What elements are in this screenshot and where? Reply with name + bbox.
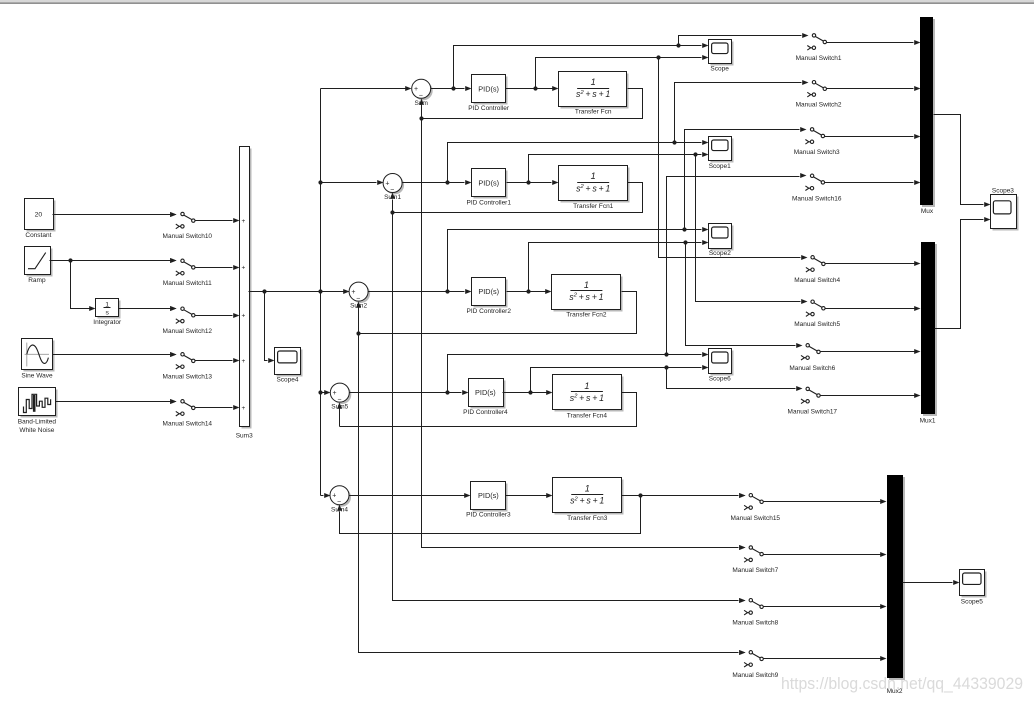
wire Integrator to Manual Switch12 bbox=[119, 306, 177, 311]
svg-text:PID(s): PID(s) bbox=[478, 287, 499, 296]
transfer function block Transfer Fcn4 1/(s^2+s+1) bbox=[553, 375, 624, 412]
svg-text:Manual Switch5: Manual Switch5 bbox=[794, 321, 840, 328]
svg-text:Manual Switch10: Manual Switch10 bbox=[163, 233, 213, 240]
manual switch Manual Switch4 bbox=[794, 255, 840, 284]
scope block Scope4 bbox=[275, 348, 303, 384]
PID controller block PID Controller4 bbox=[469, 379, 506, 409]
manual switch Manual Switch11 bbox=[163, 258, 212, 287]
PID controller block PID Controller3 bbox=[471, 482, 508, 512]
manual switch Manual Switch8 bbox=[732, 598, 778, 627]
wire PID Controller2 to Transfer Fcn2 bbox=[507, 289, 552, 294]
manual switch Manual Switch15 bbox=[731, 493, 781, 522]
mux block Mux1 bbox=[920, 242, 937, 424]
wire Transfer Fcn2 output feedback bbox=[356, 292, 636, 336]
svg-text:Scope1: Scope1 bbox=[709, 163, 731, 170]
svg-text:Transfer Fcn3: Transfer Fcn3 bbox=[567, 515, 608, 522]
svg-text:PID Controller2: PID Controller2 bbox=[467, 308, 512, 315]
svg-text:Mux1: Mux1 bbox=[920, 417, 936, 424]
wire Transfer Fcn1 output feedback bbox=[390, 183, 642, 215]
svg-text:Transfer Fcn4: Transfer Fcn4 bbox=[567, 413, 608, 420]
svg-text:Mux: Mux bbox=[921, 208, 934, 215]
wire feedback into Sum5 bbox=[337, 403, 342, 427]
svg-text:s: s bbox=[105, 310, 109, 317]
mux block Mux2 bbox=[887, 475, 905, 695]
transfer function block Transfer Fcn1 1/(s^2+s+1) bbox=[559, 166, 630, 203]
wire PID output of loop0 to scope input2 bbox=[536, 55, 709, 89]
wire Mux to Scope3 input1 bbox=[934, 115, 991, 208]
wire Manual Switch11 to Sum3 bbox=[195, 265, 240, 270]
wire Transfer Fcn output feedback bbox=[419, 89, 642, 121]
svg-text:+: + bbox=[333, 390, 337, 397]
svg-text:Manual Switch8: Manual Switch8 bbox=[732, 620, 778, 627]
manual switch Manual Switch6 bbox=[789, 343, 835, 372]
wire Manual Switch13 to Sum3 bbox=[195, 358, 240, 363]
wire Manual Switch7 to mux bbox=[764, 552, 887, 557]
svg-text:Constant: Constant bbox=[25, 232, 51, 239]
wire Manual Switch17 to mux bbox=[821, 393, 921, 398]
wire Manual Switch9 to mux bbox=[764, 656, 887, 661]
wire Ramp to Manual Switch11 bbox=[50, 258, 177, 263]
wire branch to Scope4 bbox=[265, 292, 275, 364]
wire Transfer Fcn4 output feedback bbox=[340, 393, 637, 427]
wire Transfer Fcn3 output to Manual Switch15 bbox=[622, 493, 746, 498]
manual switch Manual Switch2 bbox=[796, 80, 842, 109]
manual switch Manual Switch7 bbox=[732, 545, 778, 574]
wire Sum2 to PID Controller2 bbox=[369, 289, 472, 294]
manual switch Manual Switch1 bbox=[796, 33, 842, 62]
wire Manual Switch15 to mux bbox=[764, 499, 887, 504]
svg-text:Mux2: Mux2 bbox=[887, 688, 903, 695]
svg-text:1: 1 bbox=[585, 483, 590, 493]
wire loop0 output down to bottom switch bbox=[422, 119, 746, 551]
sum junction Sum bbox=[412, 79, 433, 104]
mux block Mux bbox=[920, 17, 935, 215]
svg-text:Manual Switch16: Manual Switch16 bbox=[792, 195, 842, 202]
PID controller block PID Controller2 bbox=[472, 278, 508, 308]
manual switch Manual Switch3 bbox=[794, 127, 840, 156]
svg-text:+: + bbox=[242, 405, 246, 412]
sum junction Sum2 bbox=[349, 282, 370, 307]
wire PID output branch of loop2 to manual switch bbox=[686, 243, 796, 346]
wire error branch of loop0 to manual switch bbox=[679, 36, 802, 46]
svg-text:PID(s): PID(s) bbox=[478, 491, 499, 500]
wire Manual Switch5 to mux bbox=[826, 306, 921, 311]
wire Transfer Fcn3 feedback to Sum4 bbox=[337, 496, 641, 534]
svg-text:Manual Switch13: Manual Switch13 bbox=[163, 374, 213, 381]
sine wave source block Sine Wave bbox=[22, 339, 55, 372]
manual switch Manual Switch12 bbox=[163, 306, 213, 335]
wire reference trunk vertical bbox=[318, 89, 322, 496]
svg-text:White Noise: White Noise bbox=[19, 427, 54, 434]
wire Mux2 to Scope5 bbox=[903, 580, 960, 585]
wire feedback into Sum1 bbox=[390, 193, 395, 213]
wire Sum5 to PID Controller4 bbox=[350, 390, 469, 395]
sum block Sum3 (vertical bar) bbox=[240, 147, 252, 429]
svg-text:Manual Switch15: Manual Switch15 bbox=[731, 515, 781, 522]
scope block Scope6 bbox=[709, 349, 734, 383]
svg-text:+: + bbox=[242, 313, 246, 320]
wire Manual Switch4 to mux bbox=[826, 261, 921, 266]
band-limited white noise source block bbox=[19, 388, 58, 418]
wire PID output branch of loop1 to manual switch bbox=[696, 155, 801, 302]
sum junction Sum4 bbox=[330, 486, 351, 511]
svg-text:+: + bbox=[242, 218, 246, 225]
wire error of loop1 to scope input1 bbox=[448, 140, 709, 183]
svg-text:+: + bbox=[242, 265, 246, 272]
svg-text:Scope5: Scope5 bbox=[961, 598, 983, 605]
wire error of loop2 to scope input1 bbox=[448, 227, 709, 292]
wire Manual Switch2 to mux bbox=[827, 86, 921, 91]
svg-text:Manual Switch9: Manual Switch9 bbox=[732, 672, 778, 679]
wire Manual Switch10 to Sum3 bbox=[195, 218, 240, 223]
sum junction Sum5 bbox=[330, 383, 351, 408]
svg-text:+: + bbox=[385, 180, 389, 187]
manual switch Manual Switch17 bbox=[788, 386, 838, 415]
svg-text:PID Controller1: PID Controller1 bbox=[467, 199, 512, 206]
svg-text:Scope: Scope bbox=[710, 66, 729, 73]
scope block Scope2 bbox=[709, 224, 734, 258]
svg-text:Manual Switch11: Manual Switch11 bbox=[163, 280, 212, 287]
wire trunk to Sum bbox=[321, 86, 412, 91]
wire Sine Wave to Manual Switch13 bbox=[53, 352, 177, 357]
svg-text:Integrator: Integrator bbox=[93, 319, 122, 326]
svg-text:+: + bbox=[332, 493, 336, 500]
window top edge bbox=[0, 0, 1034, 4]
wire Sum to PID Controller bbox=[431, 86, 472, 91]
wire PID output branch of loop3 to manual switch bbox=[667, 368, 796, 389]
svg-text:1: 1 bbox=[591, 77, 596, 87]
svg-text:Scope4: Scope4 bbox=[276, 377, 298, 384]
transfer function block Transfer Fcn2 1/(s^2+s+1) bbox=[552, 275, 623, 312]
svg-text:PID(s): PID(s) bbox=[478, 84, 499, 93]
wire Constant to Manual Switch10 bbox=[53, 212, 177, 217]
svg-text:Manual Switch4: Manual Switch4 bbox=[794, 277, 840, 284]
wire trunk to Sum4 bbox=[321, 493, 331, 498]
manual switch Manual Switch16 bbox=[792, 173, 842, 202]
svg-text:PID Controller: PID Controller bbox=[468, 105, 510, 112]
wire Manual Switch14 to Sum3 bbox=[195, 405, 240, 410]
wire Manual Switch12 to Sum3 bbox=[195, 313, 240, 318]
wire PID Controller to Transfer Fcn bbox=[506, 86, 559, 91]
wire Band-Limited White Noise to Manual Switch14 bbox=[56, 399, 177, 404]
svg-text:PID Controller4: PID Controller4 bbox=[463, 409, 508, 416]
svg-text:Manual Switch7: Manual Switch7 bbox=[732, 567, 778, 574]
svg-text:Band-Limited: Band-Limited bbox=[18, 418, 57, 425]
wire Manual Switch16 to mux bbox=[825, 180, 921, 185]
svg-text:PID(s): PID(s) bbox=[478, 179, 499, 188]
svg-text:1: 1 bbox=[591, 171, 596, 181]
wire Manual Switch6 to mux bbox=[821, 349, 921, 354]
svg-text:Manual Switch14: Manual Switch14 bbox=[163, 421, 213, 428]
wire error branch of loop2 to manual switch bbox=[685, 130, 800, 230]
ramp source block Ramp bbox=[25, 247, 53, 277]
wire PID output of loop3 to scope input2 bbox=[531, 365, 709, 393]
wire error of loop0 to scope input1 bbox=[454, 43, 709, 89]
scope block Scope1 bbox=[709, 137, 734, 171]
wire feedback into Sum bbox=[419, 99, 424, 119]
svg-text:20: 20 bbox=[35, 212, 43, 219]
PID controller block PID Controller1 bbox=[472, 169, 508, 199]
wire Manual Switch1 to mux bbox=[827, 40, 921, 45]
transfer function block Transfer Fcn 1/(s^2+s+1) bbox=[559, 72, 629, 109]
svg-text:+: + bbox=[351, 289, 355, 296]
integrator block Integrator (1/s) bbox=[96, 299, 121, 319]
svg-text:Ramp: Ramp bbox=[28, 277, 46, 284]
wire Sum3 output to Sum2 bbox=[249, 289, 350, 294]
wire error branch of loop3 to manual switch bbox=[667, 177, 800, 355]
svg-text:1: 1 bbox=[584, 280, 589, 290]
manual switch Manual Switch14 bbox=[163, 399, 213, 428]
wire PID Controller3 to Transfer Fcn3 bbox=[506, 493, 553, 498]
wire Sum4 to PID Controller3 bbox=[349, 493, 471, 498]
wire trunk to Sum1 bbox=[321, 180, 384, 185]
scope block Scope bbox=[709, 40, 734, 73]
wire Sum1 to PID Controller1 bbox=[403, 180, 472, 185]
svg-text:+: + bbox=[414, 86, 418, 93]
manual switch Manual Switch5 bbox=[794, 299, 840, 328]
wire PID output branch of loop0 to manual switch bbox=[659, 58, 801, 258]
svg-text:Scope6: Scope6 bbox=[709, 376, 731, 383]
svg-text:PID(s): PID(s) bbox=[475, 388, 496, 397]
svg-text:Manual Switch6: Manual Switch6 bbox=[789, 365, 835, 372]
manual switch Manual Switch9 bbox=[732, 650, 778, 679]
wire PID Controller1 to Transfer Fcn1 bbox=[507, 180, 559, 185]
wire Ramp branch to Integrator bbox=[71, 261, 96, 312]
svg-text:Sum3: Sum3 bbox=[236, 433, 253, 440]
svg-text:Scope3: Scope3 bbox=[992, 187, 1014, 194]
wire error branch of loop1 to manual switch bbox=[675, 83, 802, 143]
svg-text:+: + bbox=[242, 358, 246, 365]
svg-text:Manual Switch17: Manual Switch17 bbox=[788, 408, 838, 415]
wire PID Controller4 to Transfer Fcn4 bbox=[503, 390, 553, 395]
wire error of loop3 to scope input1 bbox=[448, 352, 709, 393]
scope block Scope3 bbox=[991, 187, 1019, 230]
svg-text:Transfer Fcn2: Transfer Fcn2 bbox=[566, 312, 607, 319]
wire Manual Switch8 to mux bbox=[764, 604, 887, 609]
wire trunk to Sum5 bbox=[321, 390, 331, 395]
scope block Scope5 bbox=[960, 570, 987, 606]
wire Manual Switch3 to mux bbox=[825, 134, 921, 139]
constant block Constant (value 20) bbox=[25, 199, 56, 232]
sum junction Sum1 bbox=[383, 174, 404, 199]
wire PID output of loop1 to scope input2 bbox=[529, 152, 709, 183]
PID controller block PID Controller bbox=[472, 75, 508, 105]
wire loop1 output down to bottom switch bbox=[393, 213, 746, 604]
manual switch Manual Switch10 bbox=[163, 212, 213, 240]
svg-text:Manual Switch1: Manual Switch1 bbox=[796, 55, 842, 62]
wire Mux1 to Scope3 input2 bbox=[935, 217, 991, 329]
wire PID output of loop2 to scope input2 bbox=[529, 240, 709, 292]
transfer function block Transfer Fcn3 1/(s^2+s+1) bbox=[553, 478, 624, 515]
manual switch Manual Switch13 bbox=[163, 352, 213, 381]
svg-text:Manual Switch12: Manual Switch12 bbox=[163, 328, 213, 335]
svg-text:Transfer Fcn: Transfer Fcn bbox=[575, 109, 612, 116]
wire loop2 output down to bottom switch bbox=[359, 334, 746, 656]
svg-text:Manual Switch2: Manual Switch2 bbox=[796, 102, 842, 109]
svg-text:1: 1 bbox=[584, 381, 589, 391]
svg-text:Scope2: Scope2 bbox=[709, 250, 731, 257]
wire feedback into Sum2 bbox=[356, 302, 361, 334]
svg-text:Sine Wave: Sine Wave bbox=[21, 373, 53, 380]
svg-text:PID Controller3: PID Controller3 bbox=[466, 512, 511, 519]
svg-text:Manual Switch3: Manual Switch3 bbox=[794, 149, 840, 156]
svg-text:Transfer Fcn1: Transfer Fcn1 bbox=[573, 203, 614, 210]
